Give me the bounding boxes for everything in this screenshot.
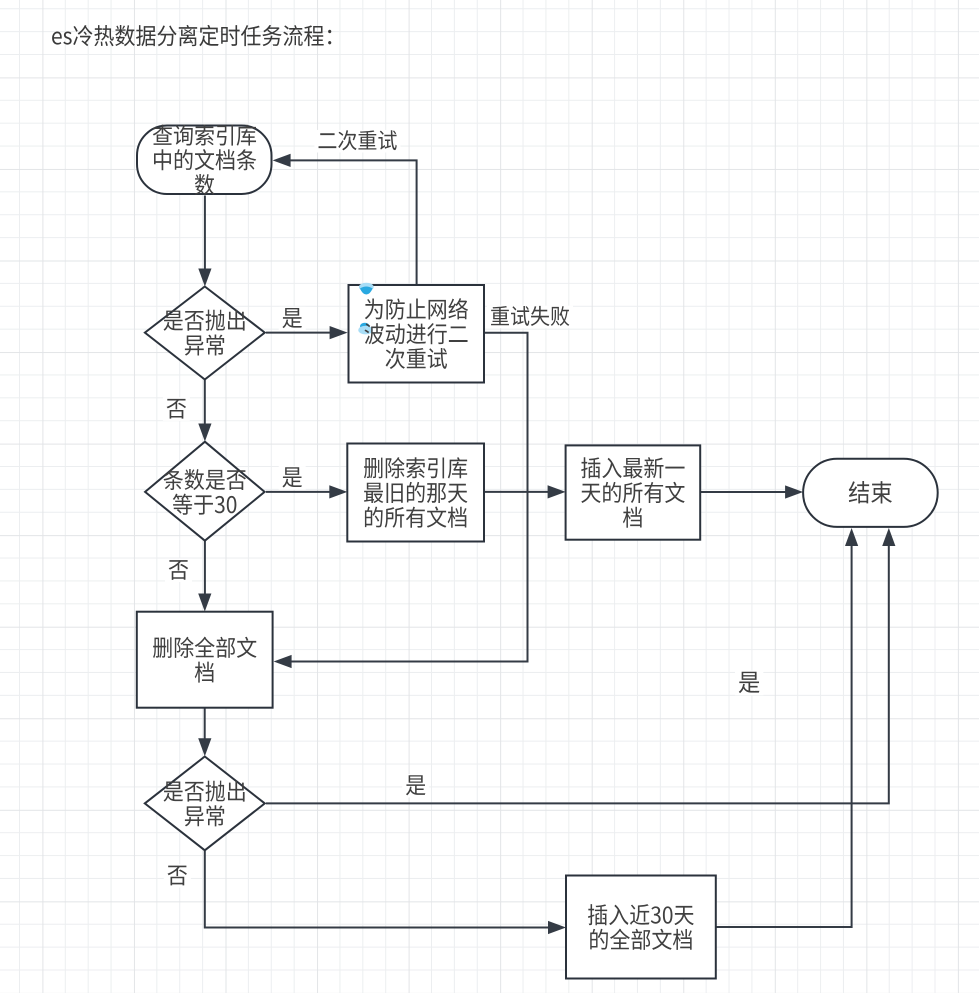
decision3 是否抛出异常 — [145, 757, 265, 851]
label 是 (decision3 long edge) — [402, 774, 429, 798]
wire delete-oldest -> insert-latest — [485, 491, 550, 493]
arrowhead into delete-oldest — [329, 485, 347, 498]
wire retry-box right -> delete-all (重试失败) — [290, 333, 528, 662]
terminator 查询索引库中的文档条数 — [137, 126, 272, 195]
wire insert-30d -> end — [717, 544, 852, 927]
arrowhead into end (long 是 edge) — [882, 528, 895, 546]
wire delete-all -> decision3 — [204, 708, 206, 741]
delete-oldest text — [364, 457, 467, 478]
arrowhead into retry-box — [330, 326, 348, 339]
decision2 条数是否等于30 — [145, 442, 265, 541]
wire decision2 -> delete-all (否) — [204, 541, 206, 596]
arrowhead into decision3 — [198, 738, 211, 756]
arrowhead into insert-latest — [548, 485, 566, 498]
decision1 是否抛出异常 — [145, 287, 265, 380]
arrowhead into end (from insert-latest) — [785, 485, 803, 498]
label 否 (decision1 down) — [163, 397, 190, 421]
label 二次重试 — [314, 130, 400, 153]
arrowhead into insert-30d — [548, 921, 566, 934]
arrowhead into terminator1 — [273, 154, 291, 167]
wire terminator1 -> decision1 — [204, 196, 206, 271]
retry-box text — [365, 298, 468, 319]
label 是 (near end) — [735, 671, 763, 696]
decision3 text — [164, 781, 245, 802]
insert-latest text — [581, 457, 684, 478]
wire insert-latest -> end — [701, 491, 788, 493]
wire retry-box top -> terminator1 (二次重试 feedback) — [289, 160, 417, 284]
process 插入近30天的全部文档 — [566, 876, 716, 979]
label 是 (decision2->delete-oldest) — [279, 466, 306, 490]
decision2 text — [164, 469, 246, 490]
arrowhead into delete-all (重试失败) — [274, 655, 292, 668]
process 为防止网络波动进行二次重试 — [349, 285, 485, 383]
process 删除索引库最旧的那天的所有文档 — [347, 444, 484, 542]
wire decision3 -> end long (是) — [266, 544, 889, 803]
arrowhead into end (from insert-30d) — [845, 528, 858, 546]
title text: es冷热数据分离定时任务流程 — [52, 25, 331, 46]
label 否 (decision2 down) — [165, 559, 192, 583]
end text — [849, 481, 892, 503]
arrowhead into decision2 — [198, 424, 211, 442]
decision1 text — [164, 310, 245, 331]
arrowhead into decision1 — [198, 269, 211, 287]
terminator1 text — [153, 125, 256, 146]
cyan marker icon left of retry-box — [358, 323, 373, 335]
label 是 (decision1->retry) — [279, 307, 306, 331]
label 否 (decision3 down) — [164, 864, 191, 888]
process 插入最新一天的所有文档 — [566, 445, 701, 539]
terminator 结束 — [803, 459, 938, 527]
process 删除全部文档 — [137, 612, 273, 708]
wire decision1 -> decision2 (否) — [204, 380, 206, 426]
cyan marker icon top of retry-box — [359, 283, 374, 295]
wire decision2 -> delete-oldest (是) — [266, 491, 332, 493]
wire decision3 -> insert-30d (否) — [205, 851, 550, 928]
delete-all text — [153, 637, 256, 658]
insert-30d text — [588, 904, 694, 925]
label 重试失败 — [487, 306, 573, 329]
arrowhead into delete-all (from decision2) — [198, 594, 211, 612]
wire decision1 -> retry-box (是) — [266, 332, 332, 334]
